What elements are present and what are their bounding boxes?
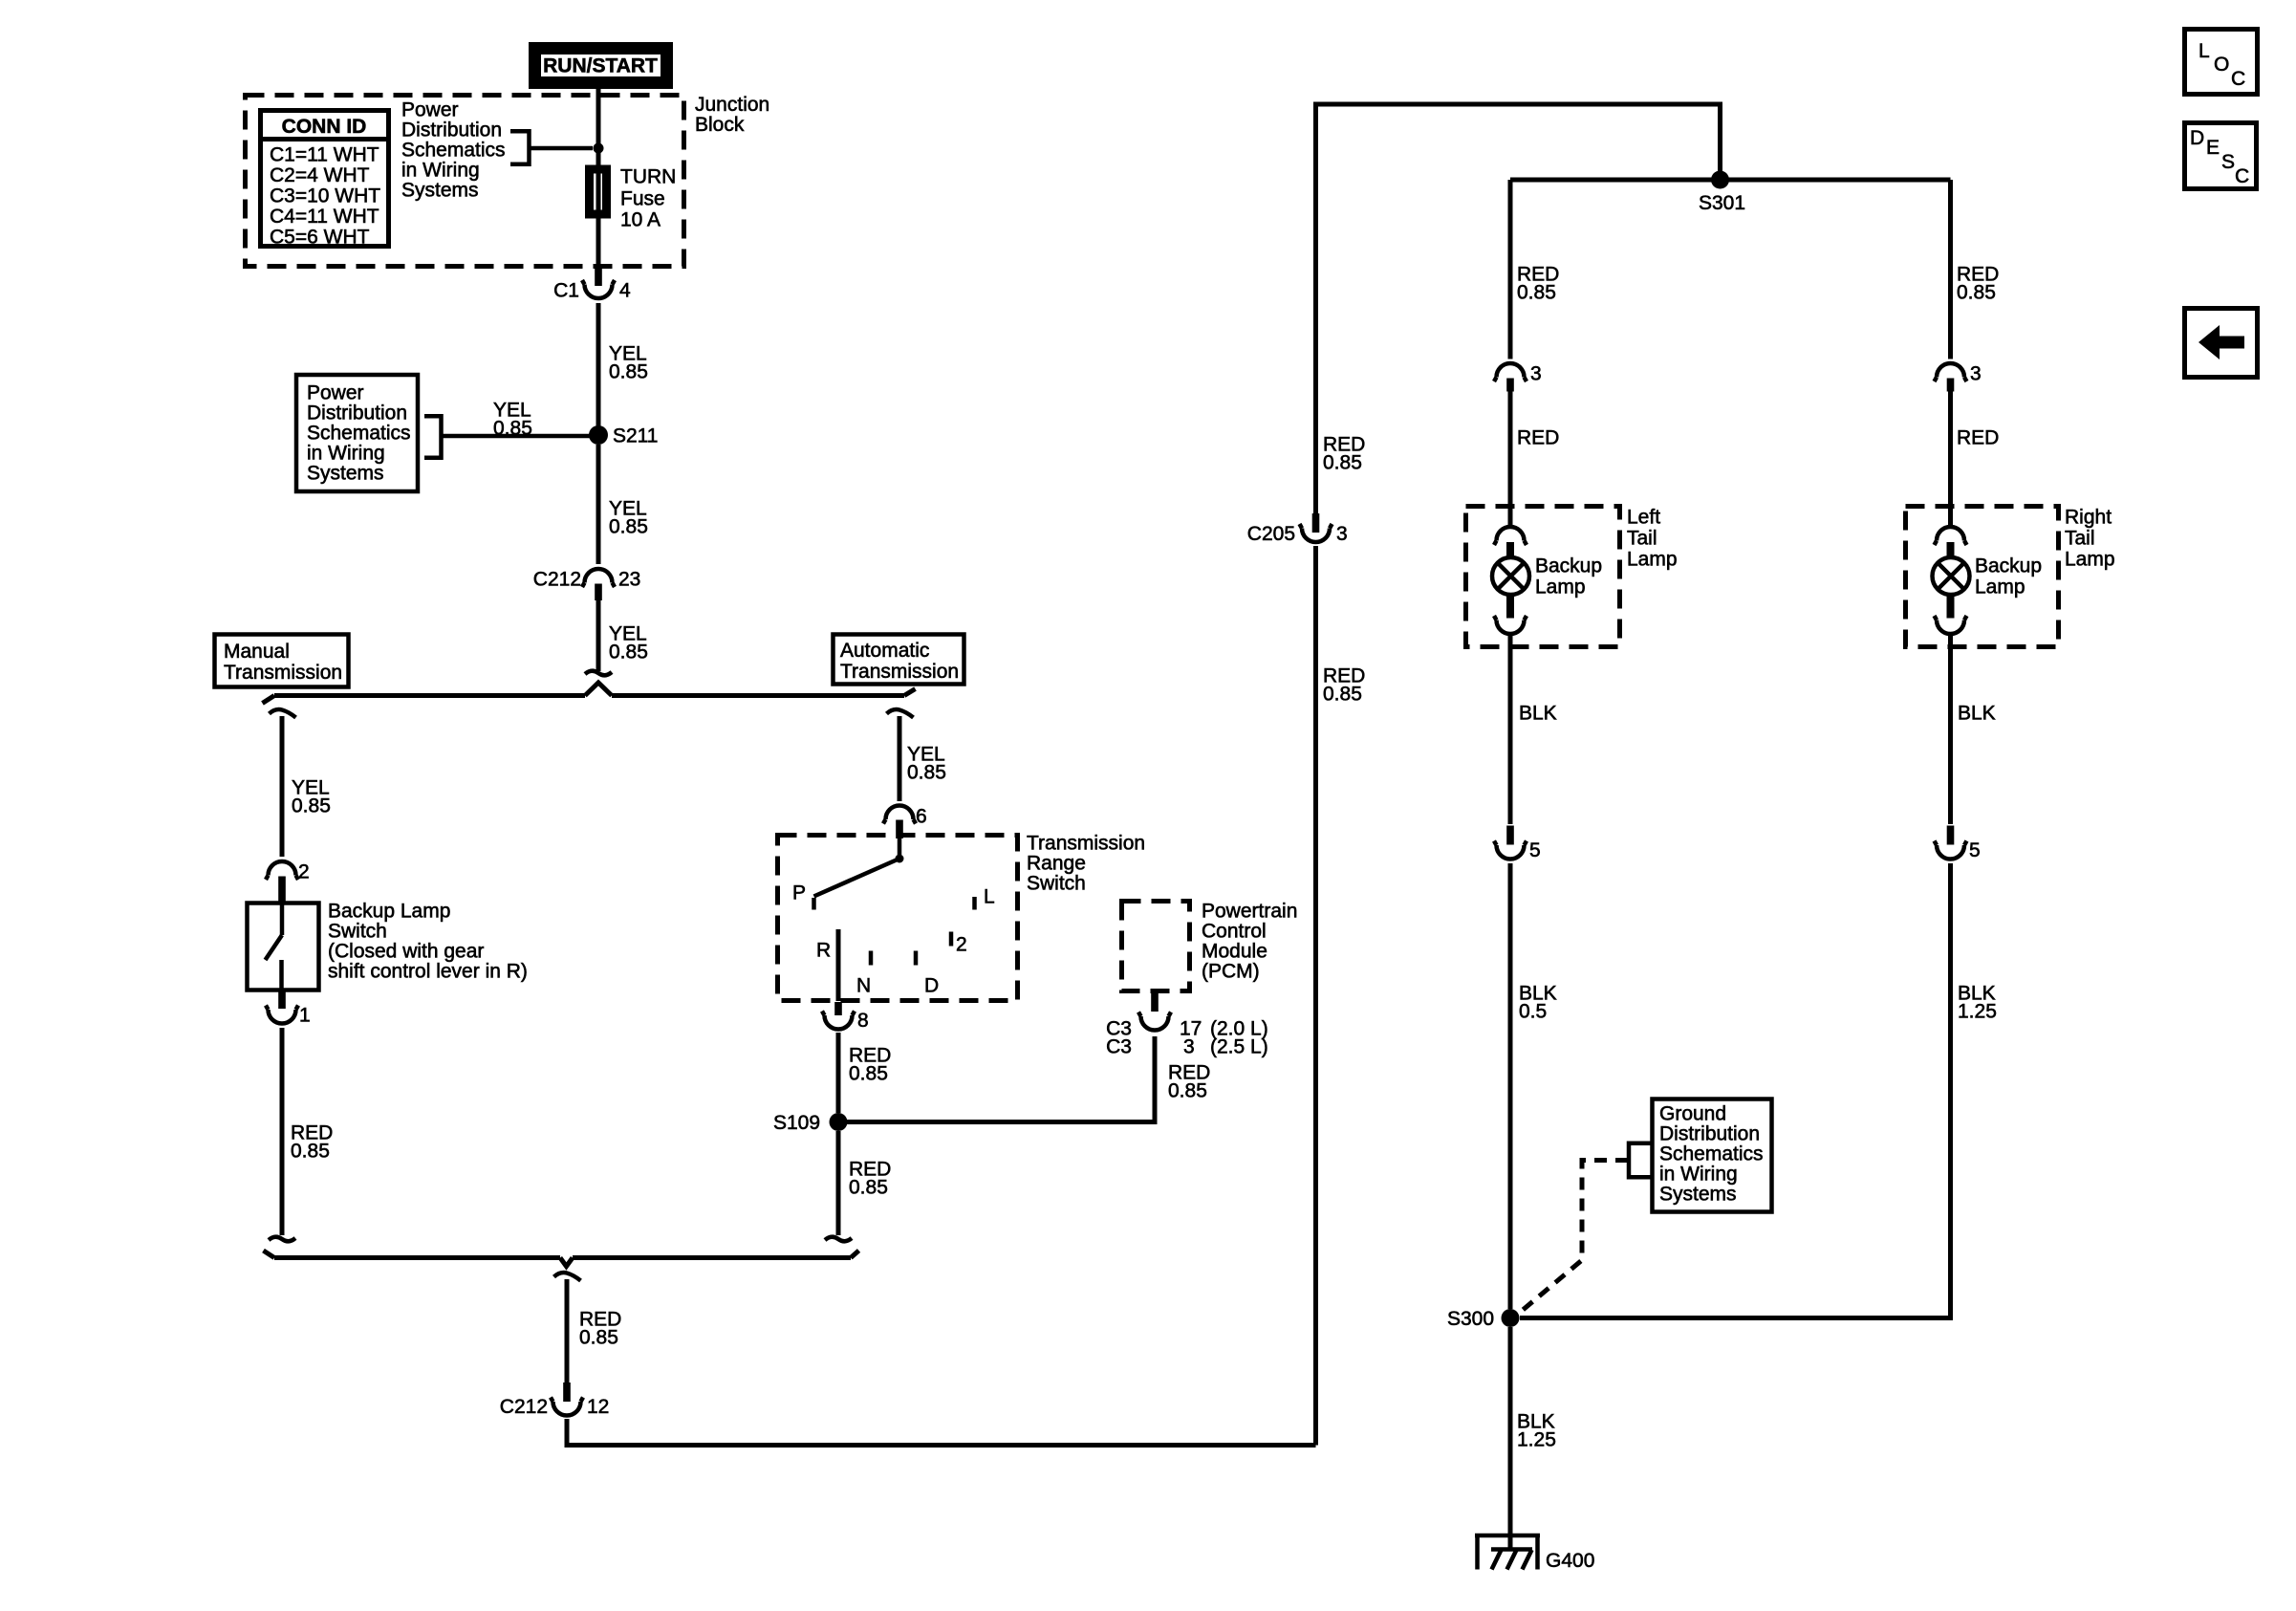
svg-text:0.85: 0.85 bbox=[907, 762, 946, 784]
switch wiper inside TRS bbox=[814, 838, 904, 897]
label left tail lamp bbox=[1627, 507, 1678, 571]
svg-text:in Wiring: in Wiring bbox=[1659, 1164, 1738, 1186]
svg-text:C3=10 WHT: C3=10 WHT bbox=[270, 185, 380, 207]
wire end curl bbox=[585, 671, 612, 676]
svg-text:1.25: 1.25 bbox=[1517, 1429, 1556, 1451]
svg-text:0.85: 0.85 bbox=[1957, 282, 1996, 304]
LOC box bbox=[2185, 30, 2258, 95]
svg-text:Lamp: Lamp bbox=[1535, 577, 1586, 599]
svg-text:1: 1 bbox=[299, 1005, 311, 1027]
contact N bbox=[856, 951, 871, 997]
label RED 0.85 bbox=[849, 1045, 891, 1085]
label RED 0.85 bbox=[849, 1159, 891, 1199]
svg-text:Module: Module bbox=[1202, 941, 1267, 963]
wire pin3 to left lamp bbox=[1508, 391, 1513, 527]
wire fuse to C1 bbox=[596, 169, 601, 214]
label backup lamp switch bbox=[328, 901, 528, 983]
svg-text:S: S bbox=[2221, 151, 2235, 173]
label RED 0.85 bbox=[1323, 665, 1365, 706]
svg-text:TURN: TURN bbox=[620, 166, 676, 188]
svg-text:Backup: Backup bbox=[1975, 555, 2042, 577]
label YEL 0.85 bbox=[292, 777, 331, 817]
label YEL 0.85 bbox=[493, 400, 532, 440]
connector pin 8 bbox=[822, 1002, 869, 1032]
svg-text:Systems: Systems bbox=[401, 180, 479, 202]
backup lamp switch box bbox=[248, 903, 319, 991]
svg-text:Transmission: Transmission bbox=[224, 662, 342, 684]
contact P bbox=[792, 882, 814, 910]
svg-text:3: 3 bbox=[1970, 363, 1982, 385]
label RED 0.85 bbox=[291, 1122, 333, 1163]
svg-text:6: 6 bbox=[916, 806, 927, 828]
wire from bracket to splice bbox=[530, 146, 594, 151]
contact L bbox=[975, 886, 995, 910]
left tail lamp dashed box bbox=[1466, 507, 1620, 647]
wire right lamp down bbox=[1948, 635, 1953, 824]
connector C205 pin 3 bbox=[1247, 513, 1348, 545]
svg-text:Powertrain: Powertrain bbox=[1202, 901, 1297, 923]
svg-text:S211: S211 bbox=[613, 425, 659, 447]
svg-text:S300: S300 bbox=[1447, 1308, 1494, 1330]
power source box RUN/START bbox=[533, 47, 669, 85]
svg-text:0.85: 0.85 bbox=[291, 1141, 330, 1163]
wire C212 to bus bbox=[596, 600, 601, 671]
label RED 0.85 bbox=[1168, 1062, 1210, 1102]
branch hook automatic bbox=[887, 709, 914, 718]
wire S301 to left lamp bbox=[1508, 180, 1513, 359]
wire S300 to ground bbox=[1508, 1327, 1513, 1548]
svg-text:0.85: 0.85 bbox=[579, 1327, 618, 1349]
svg-text:D: D bbox=[2190, 127, 2204, 149]
svg-text:0.85: 0.85 bbox=[1517, 282, 1556, 304]
svg-text:0.85: 0.85 bbox=[609, 361, 648, 383]
transmission range switch dashed box bbox=[778, 836, 1018, 1001]
svg-text:C3: C3 bbox=[1106, 1036, 1132, 1058]
svg-text:12: 12 bbox=[587, 1396, 609, 1418]
svg-text:CONN ID: CONN ID bbox=[282, 116, 367, 138]
svg-text:(PCM): (PCM) bbox=[1202, 961, 1260, 983]
svg-text:Backup: Backup bbox=[1535, 555, 1602, 577]
CONN ID table bbox=[260, 111, 389, 249]
label transmission range switch bbox=[1027, 833, 1145, 895]
svg-text:C5=6 WHT: C5=6 WHT bbox=[270, 227, 370, 249]
contact 2 bbox=[951, 932, 967, 956]
wire riser to top bus bbox=[1316, 104, 1721, 513]
back arrow box bbox=[2185, 309, 2258, 378]
svg-text:RED: RED bbox=[1957, 427, 1999, 449]
svg-text:Right: Right bbox=[2065, 507, 2112, 529]
splice S300 bbox=[1447, 1308, 1520, 1330]
svg-text:(2.5 L): (2.5 L) bbox=[1210, 1036, 1268, 1058]
svg-text:5: 5 bbox=[1969, 839, 1981, 861]
contact D bbox=[916, 951, 939, 997]
DESC box bbox=[2185, 123, 2257, 189]
svg-text:Systems: Systems bbox=[1659, 1184, 1737, 1206]
dashed link to S300 bbox=[1522, 1161, 1628, 1312]
wire C1 to S211 bbox=[596, 303, 601, 430]
svg-text:Manual: Manual bbox=[224, 641, 290, 663]
svg-text:RED: RED bbox=[1517, 427, 1559, 449]
svg-text:Schematics: Schematics bbox=[307, 423, 411, 445]
label powertrain control module bbox=[1202, 901, 1297, 983]
box Automatic Transmission bbox=[834, 635, 964, 685]
svg-text:Ground: Ground bbox=[1659, 1103, 1726, 1125]
bracket to ground distribution box bbox=[1629, 1142, 1652, 1180]
svg-text:(Closed with gear: (Closed with gear bbox=[328, 941, 484, 963]
label BLK 1.25 bbox=[1517, 1411, 1556, 1451]
svg-text:Control: Control bbox=[1202, 921, 1267, 943]
svg-text:shift control lever in R): shift control lever in R) bbox=[328, 961, 528, 983]
powertrain control module dashed box bbox=[1122, 902, 1190, 991]
ground distribution note box bbox=[1653, 1099, 1772, 1212]
bracket to power distribution note bbox=[510, 129, 530, 166]
svg-text:C1: C1 bbox=[553, 280, 579, 302]
splice S301 bbox=[1699, 171, 1745, 215]
svg-text:C: C bbox=[2235, 165, 2249, 187]
wire S300 to right lamp branch bbox=[1520, 863, 1951, 1318]
fuse TURN 10A bbox=[590, 166, 677, 231]
wire end curl bbox=[269, 1237, 295, 1242]
svg-text:Distribution: Distribution bbox=[1659, 1123, 1760, 1145]
svg-text:0.85: 0.85 bbox=[849, 1063, 888, 1085]
svg-text:Lamp: Lamp bbox=[1627, 549, 1678, 571]
connector pin 3 right bbox=[1935, 363, 1982, 392]
branch hook left bbox=[270, 709, 296, 718]
svg-text:C1=11 WHT: C1=11 WHT bbox=[270, 144, 379, 166]
svg-text:Range: Range bbox=[1027, 853, 1086, 875]
svg-text:Automatic: Automatic bbox=[840, 640, 929, 662]
svg-text:Schematics: Schematics bbox=[401, 140, 506, 162]
wire bus to C212 bbox=[565, 1279, 570, 1382]
label RED 0.85 bbox=[579, 1309, 621, 1349]
note power distribution schematics (top) bbox=[401, 99, 506, 202]
svg-text:O: O bbox=[2214, 54, 2229, 76]
connector pin 2 bbox=[266, 861, 310, 903]
splice S211 bbox=[589, 425, 659, 447]
svg-text:D: D bbox=[924, 975, 939, 997]
wire RUN/START to fuse bbox=[596, 87, 601, 169]
svg-text:Tail: Tail bbox=[1627, 528, 1657, 550]
svg-text:Lamp: Lamp bbox=[2065, 549, 2115, 571]
contact R and wire bbox=[816, 929, 838, 1001]
svg-text:C4=11 WHT: C4=11 WHT bbox=[270, 206, 379, 228]
connector C3 pins 17/3 bbox=[1106, 992, 1268, 1058]
svg-text:C205: C205 bbox=[1247, 523, 1295, 545]
label RED 0.85 bbox=[1323, 434, 1365, 474]
svg-text:BLK: BLK bbox=[1958, 703, 1996, 725]
svg-text:0.85: 0.85 bbox=[849, 1177, 888, 1199]
svg-text:Systems: Systems bbox=[307, 463, 384, 485]
svg-text:BLK: BLK bbox=[1519, 703, 1557, 725]
splice dot in junction block bbox=[594, 143, 604, 154]
svg-text:C212: C212 bbox=[533, 569, 581, 591]
svg-text:0.85: 0.85 bbox=[609, 516, 648, 538]
svg-text:2: 2 bbox=[956, 934, 967, 956]
svg-text:E: E bbox=[2206, 137, 2220, 159]
svg-text:L: L bbox=[2199, 40, 2210, 62]
svg-text:Transmission: Transmission bbox=[1027, 833, 1145, 855]
connector pin 1 bbox=[266, 991, 311, 1027]
connector pin 6 bbox=[883, 806, 927, 839]
svg-text:3: 3 bbox=[1183, 1036, 1195, 1058]
label RED 0.85 right bbox=[1957, 264, 1999, 304]
wire S211 to C212 bbox=[596, 445, 601, 564]
right backup lamp bulb bbox=[1933, 527, 1970, 634]
svg-text:Schematics: Schematics bbox=[1659, 1143, 1764, 1165]
svg-text:G400: G400 bbox=[1546, 1550, 1594, 1572]
bus wire lower merge bbox=[264, 1251, 859, 1267]
svg-text:R: R bbox=[816, 940, 831, 962]
splice S109 bbox=[773, 1112, 848, 1134]
svg-text:3: 3 bbox=[1530, 363, 1542, 385]
svg-text:Lamp: Lamp bbox=[1975, 577, 2025, 599]
label YEL 0.85 bbox=[609, 623, 648, 664]
svg-text:5: 5 bbox=[1529, 839, 1541, 861]
svg-text:Transmission: Transmission bbox=[840, 661, 959, 683]
svg-text:Backup Lamp: Backup Lamp bbox=[328, 901, 450, 923]
wire S109 to bus bbox=[836, 1131, 841, 1235]
svg-text:0.85: 0.85 bbox=[1323, 684, 1362, 706]
junction block dashed box bbox=[246, 94, 770, 267]
svg-text:Switch: Switch bbox=[328, 921, 387, 943]
svg-text:10 A: 10 A bbox=[620, 209, 661, 231]
svg-text:S301: S301 bbox=[1699, 192, 1745, 214]
svg-text:2: 2 bbox=[298, 861, 310, 883]
svg-text:0.5: 0.5 bbox=[1519, 1001, 1547, 1023]
connector C1 pin 4 bbox=[553, 269, 631, 302]
label BLK 0.5 bbox=[1519, 983, 1557, 1023]
label right tail lamp bbox=[2065, 507, 2115, 571]
svg-text:Distribution: Distribution bbox=[307, 403, 407, 425]
right tail lamp dashed box bbox=[1906, 507, 2059, 647]
svg-text:4: 4 bbox=[619, 280, 631, 302]
connector C212 pin 23 bbox=[533, 569, 641, 601]
bus wire S301 bbox=[1510, 178, 1951, 183]
connector C212 pin 12 bbox=[500, 1382, 610, 1418]
svg-text:8: 8 bbox=[857, 1010, 869, 1032]
svg-text:Left: Left bbox=[1627, 507, 1660, 529]
left backup lamp bulb bbox=[1492, 527, 1529, 634]
svg-text:C: C bbox=[2231, 68, 2245, 90]
power distribution note box bbox=[296, 375, 418, 491]
svg-text:Block: Block bbox=[695, 114, 745, 136]
wire bracket to S211 bbox=[442, 434, 591, 439]
connector pin 5 right bbox=[1935, 826, 1981, 862]
wire pin8 to S109 bbox=[836, 1033, 841, 1113]
box Manual Transmission bbox=[215, 635, 349, 687]
label backup lamp left bbox=[1535, 555, 1602, 599]
connector pin 3 left bbox=[1494, 363, 1542, 392]
svg-text:0.85: 0.85 bbox=[1168, 1080, 1207, 1102]
svg-text:in Wiring: in Wiring bbox=[307, 443, 385, 465]
bus wire manual/automatic split bbox=[263, 683, 916, 704]
svg-text:RUN/START: RUN/START bbox=[543, 55, 658, 77]
svg-text:0.85: 0.85 bbox=[292, 795, 331, 817]
label RED 0.85 left bbox=[1517, 264, 1559, 304]
svg-text:Tail: Tail bbox=[2065, 528, 2095, 550]
branch hook lower bbox=[554, 1273, 581, 1281]
connector pin 5 left bbox=[1494, 826, 1541, 862]
svg-text:C212: C212 bbox=[500, 1396, 548, 1418]
svg-text:P: P bbox=[792, 882, 806, 904]
svg-text:S109: S109 bbox=[773, 1112, 820, 1134]
wire C212-12 to C205 riser bbox=[567, 546, 1316, 1446]
svg-text:Distribution: Distribution bbox=[401, 120, 502, 142]
svg-text:1.25: 1.25 bbox=[1958, 1001, 1997, 1023]
wire pin3 to right lamp bbox=[1948, 391, 1953, 527]
wire automatic branch down bbox=[898, 716, 902, 801]
svg-text:Power: Power bbox=[307, 382, 364, 404]
svg-text:0.85: 0.85 bbox=[609, 642, 648, 664]
svg-text:Power: Power bbox=[401, 99, 459, 121]
wire pin5 to S300 bbox=[1508, 863, 1513, 1309]
svg-text:L: L bbox=[984, 886, 995, 908]
svg-text:Fuse: Fuse bbox=[620, 188, 665, 210]
wire left lamp down bbox=[1508, 635, 1513, 824]
label YEL 0.85 bbox=[907, 744, 946, 784]
svg-text:3: 3 bbox=[1336, 523, 1348, 545]
svg-text:Switch: Switch bbox=[1027, 873, 1086, 895]
ground G400 bbox=[1475, 1535, 1594, 1572]
label BLK 1.25 right bbox=[1958, 983, 1997, 1023]
svg-text:in Wiring: in Wiring bbox=[401, 160, 480, 182]
label YEL 0.85 bbox=[609, 343, 648, 383]
svg-text:0.85: 0.85 bbox=[1323, 452, 1362, 474]
wire switch to bus bbox=[280, 1028, 285, 1235]
wire end curl bbox=[825, 1237, 852, 1242]
wire S301 to right lamp bbox=[1948, 180, 1953, 359]
svg-text:C2=4 WHT: C2=4 WHT bbox=[270, 164, 370, 186]
wire S109 to PCM bbox=[847, 1036, 1155, 1122]
label backup lamp right bbox=[1975, 555, 2042, 599]
svg-text:23: 23 bbox=[618, 569, 640, 591]
svg-text:N: N bbox=[856, 975, 871, 997]
bracket to power distribution box bbox=[424, 414, 442, 460]
svg-text:Junction: Junction bbox=[695, 94, 769, 116]
wire manual branch down bbox=[280, 716, 285, 857]
label YEL 0.85 bbox=[609, 498, 648, 538]
